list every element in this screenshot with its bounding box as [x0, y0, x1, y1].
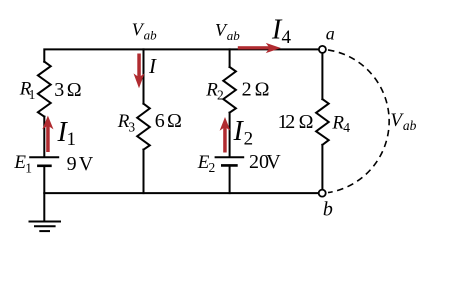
- label 9 V: [67, 153, 94, 175]
- svg-text:Ω: Ω: [67, 79, 82, 101]
- resistor R3: [137, 104, 150, 150]
- svg-text:b: b: [323, 198, 333, 220]
- svg-text:9: 9: [67, 153, 77, 175]
- label R3: [117, 111, 136, 134]
- svg-text:Ω: Ω: [255, 79, 270, 101]
- svg-text:2: 2: [244, 128, 254, 149]
- wire branch2 top: [143, 49, 145, 103]
- label R1: [19, 79, 36, 102]
- wire top rail: [44, 49, 319, 61]
- svg-text:2: 2: [285, 111, 295, 133]
- wire branch3 mid: [229, 113, 231, 157]
- wire branch2 bottom: [143, 150, 145, 194]
- resistor R4: [316, 99, 329, 145]
- wire branch3 top: [229, 49, 231, 67]
- label E1: [13, 152, 32, 175]
- wire branch4 bottom: [321, 145, 323, 190]
- arrow I down: [134, 54, 145, 89]
- arrow I2: [220, 117, 231, 153]
- svg-text:ab: ab: [403, 118, 417, 133]
- ground: [30, 222, 61, 232]
- label Vab right: [390, 110, 416, 133]
- svg-text:V: V: [79, 153, 94, 175]
- resistor R2: [223, 67, 236, 113]
- svg-text:3: 3: [54, 79, 64, 101]
- svg-text:Ω: Ω: [299, 111, 314, 133]
- wire left mid: [43, 117, 45, 157]
- label R2: [205, 80, 223, 103]
- svg-text:2: 2: [217, 88, 224, 103]
- svg-text:2: 2: [209, 160, 216, 175]
- wire bottom rail: [44, 192, 318, 194]
- node a: [319, 46, 326, 53]
- label 2 ohm: [242, 79, 270, 101]
- label E2: [197, 152, 215, 175]
- label 20 V: [249, 151, 281, 173]
- svg-text:Ω: Ω: [167, 110, 182, 132]
- svg-text:1: 1: [29, 87, 36, 102]
- svg-text:ab: ab: [144, 28, 158, 43]
- label 6 ohm: [155, 110, 182, 132]
- svg-text:4: 4: [282, 27, 292, 48]
- label R4: [331, 112, 350, 135]
- svg-text:1: 1: [67, 129, 77, 150]
- resistor R1: [38, 62, 51, 117]
- svg-text:4: 4: [343, 120, 350, 135]
- label Vab branch2: [132, 20, 157, 43]
- svg-text:I: I: [148, 54, 157, 78]
- label 12 ohm: [278, 111, 314, 133]
- battery E2: [216, 157, 244, 165]
- wire branch4 top: [321, 53, 323, 99]
- wire left bottom: [43, 166, 45, 222]
- arrow I1: [42, 116, 53, 152]
- svg-text:a: a: [326, 23, 335, 43]
- label I1: [57, 117, 77, 150]
- svg-text:2: 2: [242, 79, 252, 101]
- dashed arc Vab: [328, 50, 389, 193]
- svg-text:6: 6: [155, 110, 165, 132]
- svg-text:3: 3: [128, 119, 135, 134]
- arrow I4: [238, 43, 281, 53]
- label I4: [271, 14, 292, 48]
- node b: [319, 190, 326, 197]
- svg-text:V: V: [266, 151, 281, 173]
- battery E1: [30, 157, 58, 166]
- label I2: [233, 116, 254, 149]
- wire branch3 bottom: [229, 165, 231, 193]
- label Vab branch3: [215, 20, 240, 43]
- label 3 ohm: [54, 79, 81, 101]
- svg-text:ab: ab: [227, 28, 241, 43]
- svg-text:1: 1: [25, 160, 32, 175]
